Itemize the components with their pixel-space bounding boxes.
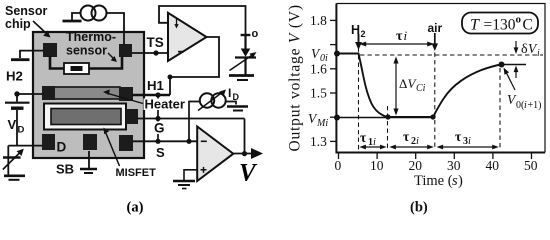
svg-text:2: 2 <box>361 29 366 39</box>
svg-text:air: air <box>428 21 443 35</box>
svg-text:V: V <box>8 117 17 132</box>
svg-text:Δ: Δ <box>399 76 407 91</box>
svg-text:D: D <box>57 140 67 155</box>
svg-text:chip: chip <box>5 17 31 31</box>
svg-text:40: 40 <box>486 158 500 173</box>
svg-text:τ: τ <box>360 130 367 145</box>
svg-text:MISFET: MISFET <box>116 167 157 179</box>
svg-text:Ci: Ci <box>416 83 426 94</box>
svg-text:+1): +1) <box>528 100 542 111</box>
svg-text:i: i <box>416 136 419 147</box>
svg-text:I: I <box>228 86 231 100</box>
svg-text:S: S <box>156 145 165 160</box>
svg-text:G: G <box>154 121 165 136</box>
svg-text:τ: τ <box>396 29 403 44</box>
svg-text:30: 30 <box>447 158 461 173</box>
svg-text:sensor: sensor <box>66 44 107 58</box>
svg-text:H2: H2 <box>6 69 23 84</box>
svg-text:C: C <box>523 17 533 34</box>
svg-text:10: 10 <box>370 158 384 173</box>
svg-text:H1: H1 <box>147 78 164 93</box>
svg-text:o: o <box>516 14 522 26</box>
svg-text:Output voltage V (V): Output voltage V (V) <box>287 4 304 151</box>
svg-text:20: 20 <box>409 158 423 173</box>
svg-text:i: i <box>404 28 408 43</box>
svg-text:50: 50 <box>524 158 538 173</box>
svg-text:T: T <box>470 17 480 34</box>
svg-text:Sensor: Sensor <box>5 4 48 18</box>
svg-text:i: i <box>537 48 540 59</box>
svg-text:1.3: 1.3 <box>310 134 327 149</box>
svg-text:τ: τ <box>403 129 410 144</box>
svg-text:Heater: Heater <box>145 97 185 112</box>
svg-text:TS: TS <box>147 35 164 50</box>
svg-text:H: H <box>351 23 360 37</box>
svg-text:): ) <box>458 173 463 189</box>
svg-text:Time (: Time ( <box>414 173 453 189</box>
svg-text:=130: =130 <box>484 17 516 34</box>
svg-text:0i: 0i <box>320 53 328 64</box>
svg-text:1.5: 1.5 <box>310 86 327 101</box>
svg-text:i: i <box>468 136 471 147</box>
svg-text:δ: δ <box>521 42 528 57</box>
svg-text:Mi: Mi <box>316 118 328 129</box>
svg-text:i: i <box>373 137 376 148</box>
svg-text:1.8: 1.8 <box>310 13 327 28</box>
svg-text:D: D <box>233 92 240 102</box>
svg-text:SB: SB <box>56 162 74 177</box>
svg-text:τ: τ <box>455 129 462 144</box>
svg-text:(b): (b) <box>410 200 428 216</box>
svg-text:0: 0 <box>335 158 342 173</box>
svg-text:V: V <box>239 160 258 187</box>
svg-text:D: D <box>18 125 25 136</box>
svg-text:(a): (a) <box>127 200 144 216</box>
svg-text:Thermo-: Thermo- <box>66 30 116 44</box>
svg-text:o: o <box>252 28 259 40</box>
